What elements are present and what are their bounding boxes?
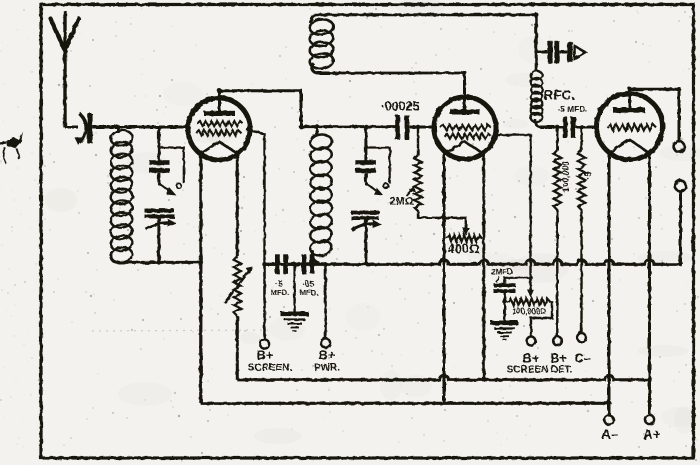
wire pot left end [505, 301, 508, 303]
wire loop right corner [535, 15, 538, 72]
wire C1 to V1 grid [93, 126, 189, 129]
label .00025 [381, 100, 420, 114]
bus B- return [265, 259, 681, 264]
wire coil L1 top lead [117, 126, 120, 133]
tube V1 plate [204, 111, 235, 116]
wire V1 plate to tank2 top [220, 91, 302, 128]
wire V3 right filament leg to A+ [648, 151, 651, 415]
wire switch bypass tank2 [366, 148, 390, 184]
label B+ B+ C- [523, 351, 591, 366]
wire tank2 cap chain top [364, 126, 367, 161]
terminal B+ det [553, 337, 562, 346]
wire V3 plate to phones [630, 89, 680, 141]
variable capacitor tuning tank2 [351, 211, 382, 230]
resistor 400 ohm [447, 235, 482, 242]
wire tank2 chain bottom [364, 220, 367, 265]
tube V3 filament [609, 140, 649, 154]
svg-text:MFD.: MFD. [300, 288, 319, 297]
coil L1 antenna tank [110, 129, 134, 264]
label 100000 [561, 161, 571, 192]
wire R3 top lead [556, 127, 558, 150]
label B+ PWR [314, 348, 340, 374]
label 100000 ohm [512, 307, 546, 316]
wire R4 top lead [580, 127, 582, 150]
wire V1 left filament leg to bus [199, 151, 202, 404]
svg-text:·00025: ·00025 [381, 100, 420, 114]
tube V3 envelope [597, 94, 663, 160]
svg-text:B+: B+ [319, 348, 336, 363]
label 2 Mohm [389, 186, 415, 208]
svg-text:A–: A– [601, 427, 619, 442]
capacitor .05 MFD bypass [302, 254, 315, 273]
terminal A+ [645, 415, 654, 424]
antenna [51, 11, 79, 128]
svg-text:·5 MFD.: ·5 MFD. [557, 104, 587, 114]
wire top coil bottom lead [312, 63, 330, 73]
terminal phones top [674, 141, 685, 152]
svg-text:100,000Ω: 100,000Ω [512, 307, 546, 316]
wire top coil top lead [311, 15, 317, 23]
wire R3 to B+ det [556, 210, 558, 337]
terminal A- [604, 415, 613, 424]
capacitor fixed tank1 [149, 160, 170, 173]
svg-text:A+: A+ [643, 427, 661, 442]
label A- [601, 427, 619, 442]
wire ground stub tank [293, 264, 295, 312]
wire B+ screen feed [263, 264, 266, 339]
tube V1 control grid [197, 121, 243, 126]
label RFC [544, 88, 576, 103]
wire coil L2 top lead [316, 126, 319, 136]
wire switch bypass tank1 [159, 148, 184, 184]
label .5 meg [583, 171, 594, 180]
wire V3 left filament leg to A- [608, 151, 611, 415]
wire tank1 cap chain top [157, 126, 160, 161]
svg-text:RFC.: RFC. [544, 88, 576, 103]
wire RFC to C5 [540, 126, 563, 129]
terminal B+ screen [260, 339, 269, 348]
wire 2MFD branch [505, 278, 531, 283]
variable capacitor tuning tank1 [145, 209, 178, 229]
label .5 MFD grid [557, 104, 587, 114]
wire grid leak top lead [417, 127, 419, 155]
arrow 400 ohm tap [462, 228, 469, 236]
tube V1 envelope [188, 98, 250, 160]
label 400 ohm [447, 241, 479, 256]
capacitor .5 MFD coupling [563, 117, 576, 139]
label 2MFD [491, 268, 513, 283]
choke RFC [530, 70, 542, 122]
coil L3 plate tickler [309, 18, 334, 70]
coil L2 interstage [309, 133, 332, 257]
bus A- filament [201, 263, 609, 403]
wire below fixed cap tank1 [157, 173, 160, 183]
rheostat R1 filament [225, 256, 253, 316]
wire grid leak bottom [418, 211, 444, 218]
wire L1 bottom lead [111, 254, 140, 262]
printing artifact blob [0, 132, 23, 165]
svg-text:2MΩ: 2MΩ [389, 196, 413, 208]
wire V2 right filament leg [482, 150, 485, 380]
tube V1 filament [202, 142, 237, 154]
wire loop bottom [328, 72, 465, 75]
wire C5 to V3 grid [576, 126, 597, 129]
wire V2 left filament leg [443, 150, 446, 403]
label .05 MFD [300, 280, 319, 298]
svg-text:100,000: 100,000 [561, 161, 571, 192]
tube V3 grid [607, 124, 656, 130]
wire RFC bottom lead [535, 119, 541, 127]
tube V2 screen grid [444, 134, 491, 139]
arrow screen tap [527, 290, 534, 298]
resistor 100000 ohm potentiometer [508, 299, 550, 305]
tube V2 plate lead [463, 72, 466, 110]
tube V2 control grid [440, 125, 491, 130]
tube V3 plate lead [628, 88, 631, 108]
terminal C- [577, 333, 586, 342]
label SCREEN DET [507, 365, 573, 376]
terminal B+ pwr [321, 338, 330, 347]
ground detector [491, 321, 519, 340]
wire V1 screen lead [247, 130, 265, 265]
wire pot to B+ screen det [531, 302, 552, 337]
svg-text:B+: B+ [550, 351, 567, 366]
wire V2 screen lead [494, 135, 531, 291]
tube V1 plate lead [218, 90, 221, 112]
capacitor fixed tank2 [355, 160, 376, 173]
tube V2 filament [446, 142, 483, 154]
tube V3 plate [613, 108, 645, 113]
label B+ SCREEN [248, 348, 293, 374]
capacitor .5 MFD bypass [275, 254, 288, 273]
svg-text:SCREEN.: SCREEN. [248, 363, 293, 374]
label .5 MFD [271, 280, 290, 298]
label A+ [643, 427, 661, 442]
tube V1 screen grid [196, 130, 241, 135]
resistor 2 Mohm grid leak [414, 155, 421, 211]
capacitor phones coupling [548, 41, 559, 64]
ground tank bypass [281, 312, 309, 332]
svg-text:·5: ·5 [583, 171, 594, 180]
wire L2 bottom lead [312, 250, 319, 263]
terminal B+ screen det [527, 337, 536, 346]
svg-text:MFD.: MFD. [271, 288, 290, 297]
variable capacitor C1 antenna series [75, 114, 93, 146]
jack phones output [567, 42, 585, 63]
wire phones stub 2 [559, 51, 567, 54]
svg-text:DET.: DET. [551, 365, 573, 376]
wire screen bypass node [265, 263, 277, 266]
wire phones bottom to bus [679, 191, 682, 264]
wire phones stub [536, 51, 548, 54]
wire R4 to C- [580, 210, 582, 333]
svg-text:PWR.: PWR. [314, 363, 340, 374]
resistor .5 megohm grid leak V3 [578, 150, 585, 210]
switch S2 tank2 [365, 182, 388, 195]
wire 2MFD to ground [504, 293, 506, 321]
wire plate loop top [314, 13, 536, 16]
wire C4 to V2 grid [409, 126, 434, 129]
tube V2 envelope [434, 97, 496, 159]
wire tank2 top [301, 125, 397, 128]
capacitor 2 MFD [494, 283, 516, 293]
svg-text:C–: C– [574, 351, 591, 366]
wire B+ pwr feed [324, 264, 327, 338]
wire between bypass caps [288, 263, 302, 266]
wire antenna to C1 [65, 126, 78, 129]
wire 400 ohm tap [444, 218, 466, 229]
tube V2 plate [450, 109, 480, 114]
svg-text:SCREEN: SCREEN [507, 365, 549, 376]
switch S1 tank1 [158, 182, 181, 195]
svg-text:B+: B+ [523, 351, 540, 366]
wire below fixed cap tank2 [364, 173, 367, 183]
wire tank1 bottom [140, 261, 202, 264]
wire rheostat to A+ bus [236, 316, 239, 380]
wire tank1 chain bottom [157, 218, 160, 263]
wire V1 right filament leg [236, 151, 239, 257]
terminal phones bottom [675, 181, 686, 192]
svg-text:B+: B+ [257, 348, 274, 363]
capacitor .00025 grid [395, 115, 409, 140]
resistor 100000 ohm [554, 150, 561, 210]
bus A+ filament [237, 375, 649, 379]
